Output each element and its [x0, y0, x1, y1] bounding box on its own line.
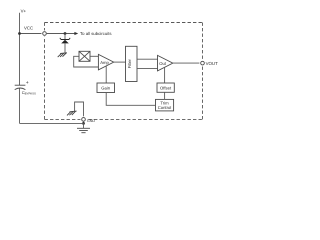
svg-text:VCC: VCC — [24, 26, 33, 31]
wire GND pin to rail — [83, 122, 85, 124]
wire ground rail — [20, 122, 84, 124]
junction on V+ rail — [18, 32, 21, 35]
svg-text:To all subcircuits: To all subcircuits — [80, 31, 112, 36]
wire VCC rail to pin — [20, 33, 43, 35]
wire internal ground run — [75, 102, 84, 117]
svg-text:Filter: Filter — [127, 58, 132, 68]
svg-text:+: + — [26, 80, 29, 86]
wire hall loop to amp bottom — [74, 56, 99, 67]
Hall element X — [79, 51, 90, 61]
op-amp Out — [158, 55, 173, 71]
wire amp to gain — [105, 66, 107, 83]
block Filter — [126, 46, 138, 81]
wire V+ rail — [19, 13, 21, 85]
wire out to offset — [164, 67, 166, 83]
wire amp to filter — [114, 61, 126, 63]
block Trim Control — [156, 99, 174, 111]
pin VOUT (terminal circle) — [199, 60, 205, 66]
wire left rail lower — [19, 88, 21, 123]
ground (chassis) at zener — [58, 53, 67, 57]
svg-text:BYPASS: BYPASS — [25, 91, 36, 95]
svg-text:V+: V+ — [21, 8, 27, 13]
wire gain to trim control — [106, 93, 155, 106]
ground (chassis) internal — [67, 111, 77, 115]
label To all subcircuits — [80, 31, 112, 36]
svg-text:Amp: Amp — [100, 60, 109, 65]
wire filter to out bottom — [137, 68, 158, 70]
wire out to VOUT pin — [173, 62, 201, 64]
pin GND (terminal circle) — [80, 116, 86, 122]
op-amp Amp — [98, 54, 113, 70]
svg-text:Offset: Offset — [160, 85, 172, 90]
junction at zener tap — [64, 32, 67, 35]
pin VCC (terminal circle) — [41, 30, 47, 36]
ground (earth) at rail — [77, 123, 90, 132]
arrow to all subcircuits — [74, 32, 78, 35]
wire offset to trim control — [164, 92, 166, 99]
zener diode D1 — [60, 34, 70, 54]
label GND — [87, 119, 96, 123]
block Offset — [157, 83, 174, 92]
node V+ — [21, 8, 27, 13]
svg-text:Control: Control — [158, 105, 172, 110]
capacitor CBYPASS — [15, 80, 36, 95]
wire hall to amp top — [90, 55, 98, 57]
svg-text:Gain: Gain — [101, 86, 111, 91]
svg-text:VOUT: VOUT — [206, 61, 219, 66]
svg-text:GND: GND — [87, 119, 96, 123]
svg-text:Out: Out — [159, 61, 167, 66]
IC boundary dashed box — [45, 23, 203, 120]
node VCC label — [24, 26, 33, 31]
wire filter to out top — [137, 58, 158, 60]
label VOUT — [206, 61, 219, 66]
block Gain — [97, 83, 115, 93]
junction at ground rail — [82, 122, 85, 125]
wire VCC to subcircuits — [47, 33, 75, 35]
